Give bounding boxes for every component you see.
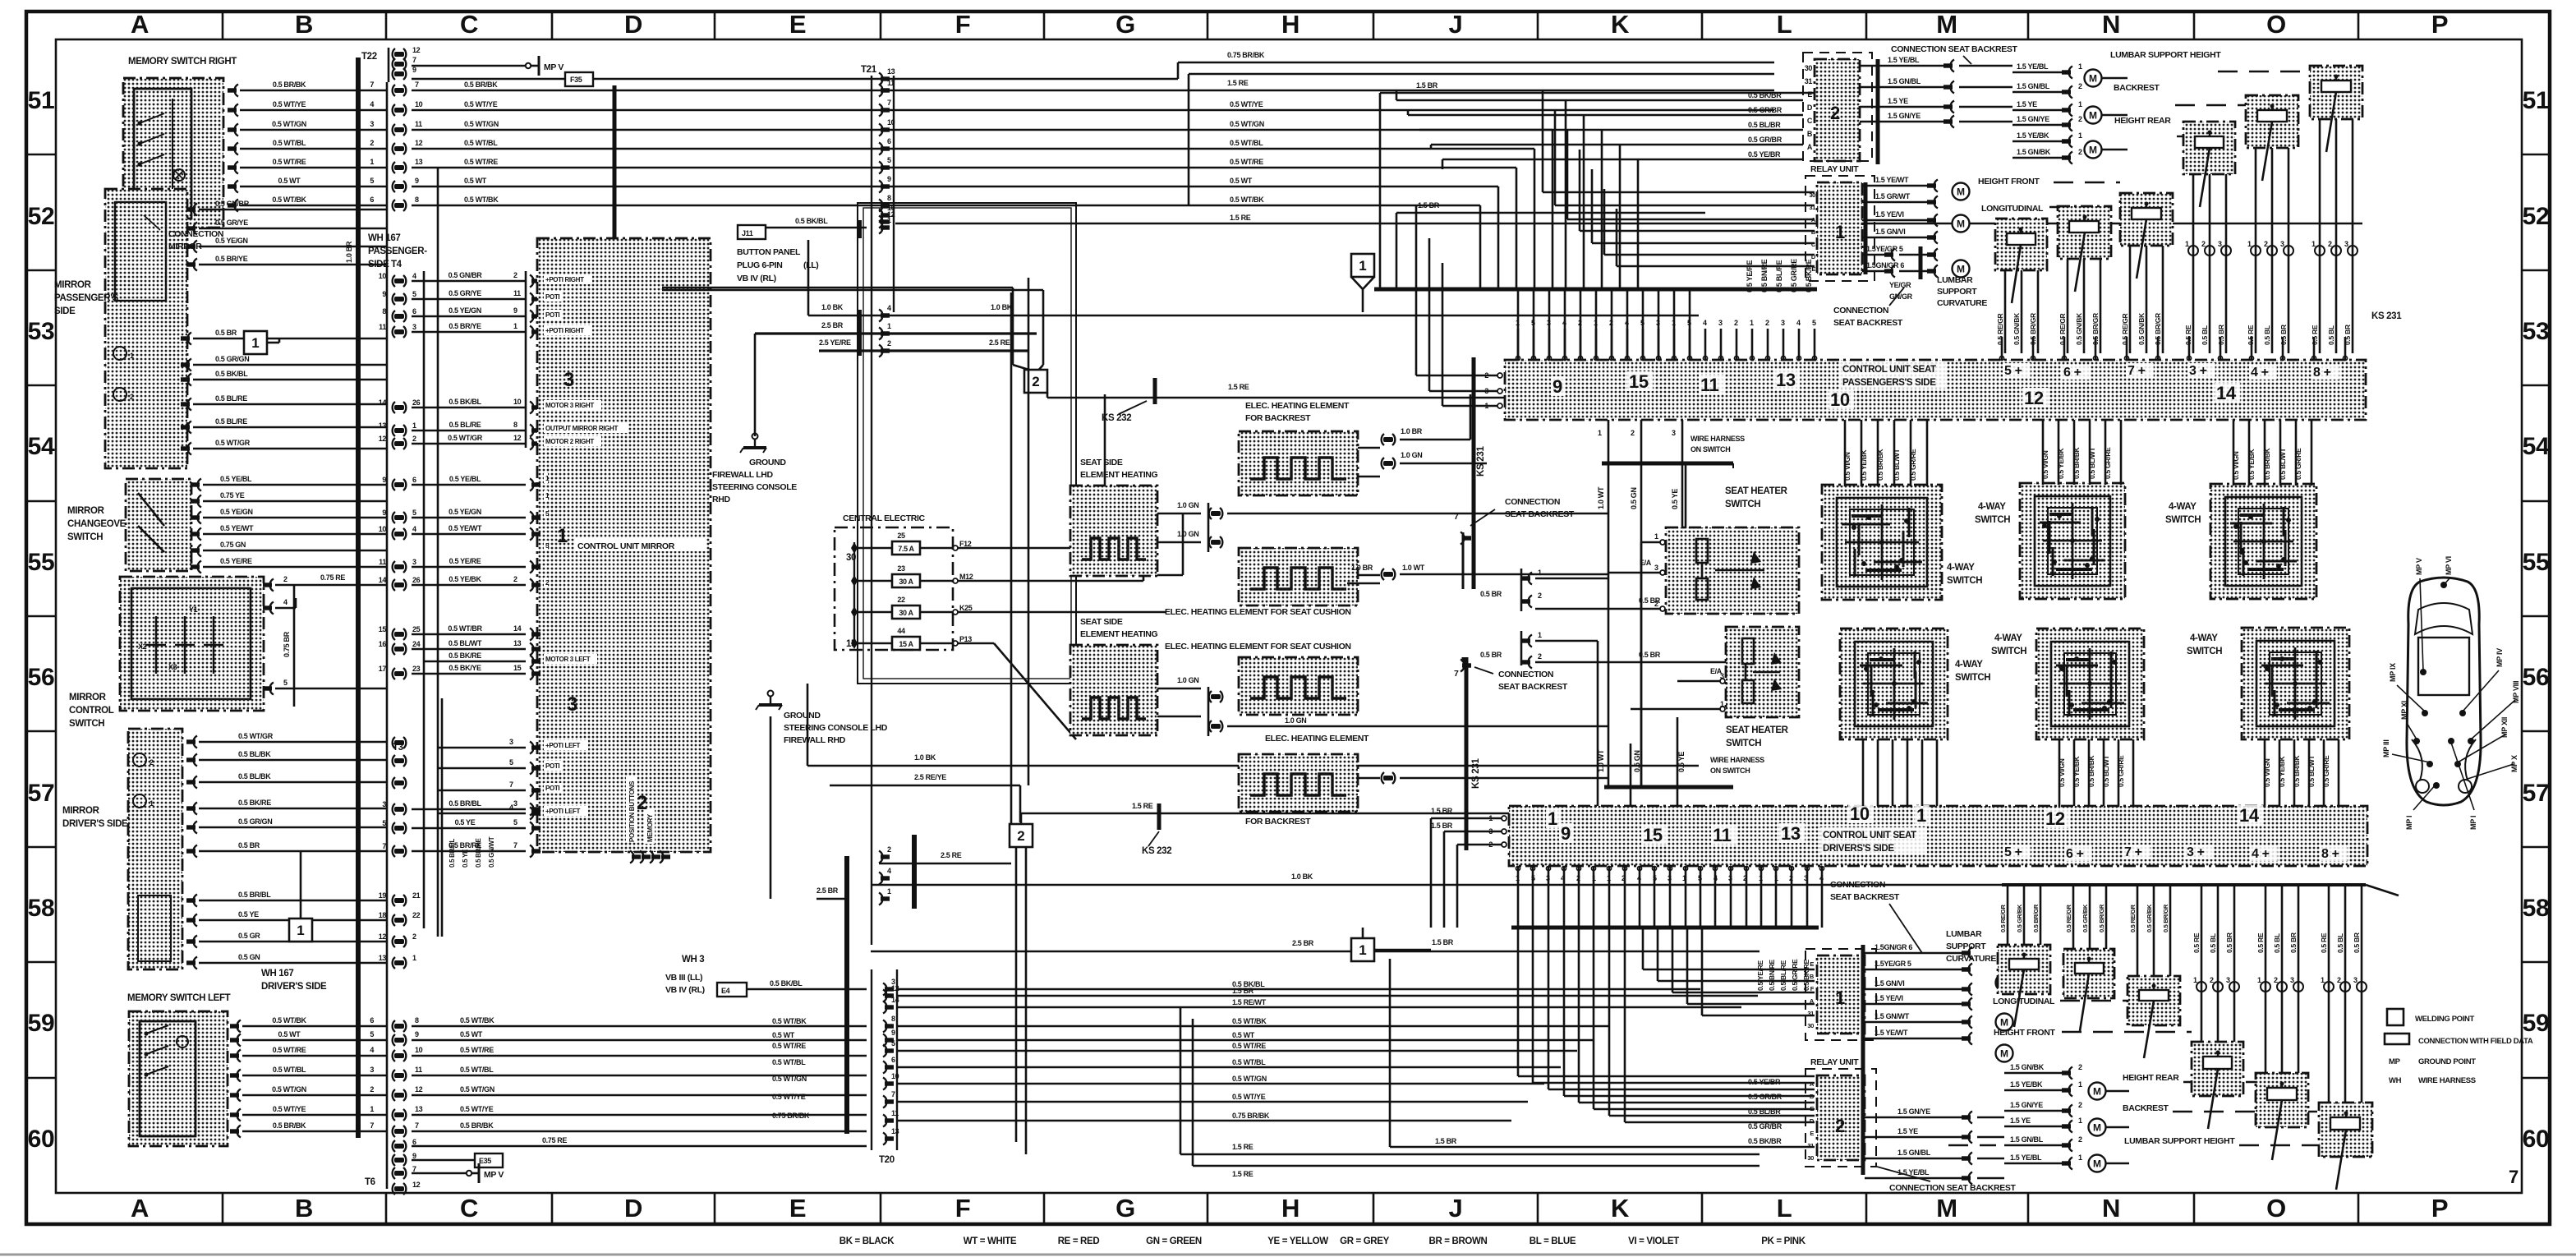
svg-text:2: 2 — [2078, 82, 2082, 90]
svg-text:SEAT BACKREST: SEAT BACKREST — [1833, 318, 1903, 328]
svg-text:VB IV (RL): VB IV (RL) — [737, 274, 776, 283]
car MP labels — [2382, 556, 2520, 830]
svg-text:J11: J11 — [742, 229, 753, 237]
svg-text:4: 4 — [1625, 319, 1629, 327]
svg-text:2.5 BR: 2.5 BR — [821, 321, 844, 329]
svg-text:0.5 BL: 0.5 BL — [2263, 325, 2271, 345]
svg-text:3: 3 — [370, 120, 374, 128]
svg-text:1: 1 — [1835, 988, 1845, 1008]
svg-text:6: 6 — [412, 476, 416, 484]
svg-text:N: N — [2102, 10, 2120, 39]
svg-text:0.5 GN: 0.5 GN — [1630, 487, 1638, 509]
svg-text:2: 2 — [513, 575, 517, 583]
svg-text:M: M — [2093, 1158, 2101, 1170]
svg-text:0.5 BL/BK: 0.5 BL/BK — [238, 772, 271, 780]
svg-text:55: 55 — [2523, 549, 2550, 576]
svg-text:0.5 YE/RE: 0.5 YE/RE — [1756, 960, 1764, 991]
svg-text:1.5 YE/BL: 1.5 YE/BL — [2017, 62, 2049, 71]
svg-text:53: 53 — [2523, 318, 2550, 345]
svg-text:VB III (LL): VB III (LL) — [665, 973, 702, 983]
svg-text:0.5 BL/BK: 0.5 BL/BK — [238, 750, 271, 758]
svg-text:0.5 BR: 0.5 BR — [1639, 651, 1661, 659]
svg-text:13: 13 — [887, 67, 895, 76]
svg-text:RHD: RHD — [712, 495, 730, 504]
svg-text:CONTROL UNIT MIRROR: CONTROL UNIT MIRROR — [577, 541, 675, 551]
svg-text:1.5 YE/BL: 1.5 YE/BL — [1897, 1168, 1930, 1176]
svg-text:5 +: 5 + — [2004, 364, 2022, 378]
svg-text:0.5 YE/RE: 0.5 YE/RE — [1746, 260, 1754, 292]
svg-text:PLUG 6-PIN: PLUG 6-PIN — [737, 260, 782, 270]
svg-text:0.5 GR/BR: 0.5 GR/BR — [1748, 106, 1782, 114]
svg-text:1.5YE/GR 5: 1.5YE/GR 5 — [1866, 245, 1903, 253]
svg-text:ELEMENT HEATING: ELEMENT HEATING — [1080, 470, 1157, 480]
svg-text:4: 4 — [412, 272, 416, 280]
svg-text:0.5 WT/RE: 0.5 WT/RE — [464, 158, 498, 166]
svg-text:RELAY UNIT: RELAY UNIT — [1810, 164, 1859, 174]
svg-text:1.5 BR: 1.5 BR — [1416, 81, 1438, 90]
svg-text:LUMBAR: LUMBAR — [1946, 929, 1982, 939]
svg-text:M12: M12 — [959, 573, 973, 581]
svg-text:0.5 YE/RE: 0.5 YE/RE — [220, 557, 252, 565]
svg-text:0.5 WT/GN: 0.5 WT/GN — [772, 1075, 807, 1083]
svg-text:4-WAY: 4-WAY — [1994, 633, 2022, 643]
svg-text:0.5 YE/BK: 0.5 YE/BK — [1860, 449, 1868, 481]
svg-text:3: 3 — [1781, 319, 1785, 327]
svg-text:WH: WH — [2389, 1076, 2402, 1085]
svg-text:0.5 BK/BL: 0.5 BK/BL — [770, 979, 803, 988]
wire trunk thick D top — [613, 85, 617, 238]
svg-text:1: 1 — [2321, 976, 2325, 984]
svg-text:FOR BACKREST: FOR BACKREST — [1245, 413, 1311, 423]
svg-text:7: 7 — [891, 1090, 895, 1098]
svg-text:7 +: 7 + — [2124, 845, 2142, 859]
svg-text:30 A: 30 A — [899, 578, 913, 586]
svg-text:0.5 WT/GN: 0.5 WT/GN — [272, 1085, 306, 1094]
svg-text:1.5 GN/BK: 1.5 GN/BK — [2017, 148, 2051, 156]
splice KS 231 top — [1474, 357, 1486, 589]
svg-text:7: 7 — [1454, 512, 1459, 522]
wires relay 1 lower outputs right — [1865, 943, 1972, 1045]
svg-text:0.5 BL/WT: 0.5 BL/WT — [2307, 755, 2316, 787]
svg-text:5: 5 — [370, 1030, 374, 1038]
svg-text:0.5 GR: 0.5 GR — [238, 932, 260, 940]
svg-text:0.5 WT/BL: 0.5 WT/BL — [460, 1066, 494, 1074]
svg-text:2: 2 — [887, 339, 891, 348]
svg-text:4: 4 — [1561, 874, 1565, 882]
wires seat heater column driver — [1597, 717, 1686, 806]
block position sensor N52 right — [2120, 193, 2173, 279]
svg-text:0.5 WT/RE: 0.5 WT/RE — [1230, 158, 1263, 166]
svg-text:1: 1 — [513, 322, 517, 330]
svg-text:1: 1 — [1592, 874, 1596, 882]
svg-text:1.0 BK: 1.0 BK — [991, 303, 1013, 311]
svg-text:SWITCH: SWITCH — [1975, 515, 2010, 525]
block control unit mirror — [537, 238, 711, 852]
svg-text:54: 54 — [2523, 433, 2550, 460]
svg-text:2.5 RE: 2.5 RE — [989, 338, 1010, 347]
svg-text:22: 22 — [412, 911, 421, 919]
svg-text:2: 2 — [1830, 103, 1840, 123]
svg-text:8: 8 — [891, 1015, 895, 1023]
svg-text:0.5 BK/YE: 0.5 BK/YE — [448, 664, 481, 672]
svg-text:0.5 BR/YE: 0.5 BR/YE — [448, 322, 481, 330]
svg-text:P: P — [2431, 1194, 2448, 1222]
svg-text:D: D — [624, 10, 642, 39]
svg-text:MP V: MP V — [544, 62, 563, 72]
wires 4-way N56 to control unit driver — [2058, 739, 2133, 806]
svg-text:0.5 WT/YE: 0.5 WT/YE — [1232, 1093, 1266, 1101]
heating element seat side 1 — [1070, 486, 1157, 576]
svg-text:0.5 BR/BK: 0.5 BR/BK — [1876, 448, 1884, 481]
svg-text:+POTI RIGHT: +POTI RIGHT — [545, 276, 584, 283]
wires position sensors bottom to control unit — [1999, 885, 2367, 1103]
svg-text:M: M — [1957, 186, 1965, 198]
svg-text:0.5 WT/BL: 0.5 WT/BL — [464, 139, 498, 147]
svg-text:0.5 YE/BK: 0.5 YE/BK — [2278, 756, 2286, 787]
svg-text:L: L — [1777, 1194, 1792, 1222]
svg-text:4: 4 — [1819, 874, 1824, 882]
svg-text:+POTI RIGHT: +POTI RIGHT — [545, 327, 584, 334]
svg-text:F12: F12 — [959, 540, 972, 548]
svg-text:X3: X3 — [168, 663, 177, 671]
svg-text:SEAT SIDE: SEAT SIDE — [1080, 617, 1123, 627]
svg-text:23: 23 — [412, 665, 421, 673]
svg-text:T21: T21 — [861, 65, 877, 75]
svg-text:1: 1 — [1916, 805, 1926, 826]
connector T21 lower pins — [879, 845, 891, 905]
svg-text:0.5 BR/GR: 0.5 BR/GR — [2162, 904, 2169, 932]
svg-text:MP V: MP V — [484, 1170, 504, 1180]
wires memory switch left — [230, 1016, 867, 1138]
block 4-way switch N54 — [2020, 483, 2125, 599]
svg-text:E: E — [1810, 1130, 1814, 1137]
block mirror changeover switch — [126, 479, 191, 571]
svg-text:1: 1 — [412, 954, 416, 962]
svg-text:8 +: 8 + — [2313, 366, 2331, 380]
block 4-way switch O56 — [2242, 628, 2349, 739]
svg-text:30: 30 — [1805, 64, 1813, 72]
svg-text:10: 10 — [887, 118, 895, 127]
svg-text:8: 8 — [415, 1016, 419, 1024]
svg-text:10: 10 — [415, 100, 423, 108]
connector pair K56 — [1480, 631, 1726, 787]
svg-text:3 +: 3 + — [2189, 364, 2207, 378]
wire 1.5 RE bottom pair — [1180, 1007, 1759, 1178]
wires position sensors top to control unit — [1996, 119, 2357, 353]
thick wire M51 — [1876, 59, 1880, 164]
connector T20 column — [872, 969, 899, 1165]
svg-text:+POTI LEFT: +POTI LEFT — [545, 808, 581, 815]
node 2 square top — [662, 288, 1047, 393]
svg-text:F: F — [955, 10, 971, 39]
svg-text:0.5 BR/GR: 0.5 BR/GR — [2029, 313, 2037, 345]
svg-text:13: 13 — [1776, 370, 1796, 390]
svg-text:5: 5 — [513, 818, 517, 826]
svg-text:2: 2 — [1538, 592, 1542, 600]
svg-text:0.5 BR/BL: 0.5 BR/BL — [238, 891, 271, 899]
svg-text:0.5 WT/BL: 0.5 WT/BL — [772, 1058, 806, 1066]
svg-text:0.5 RE/GR: 0.5 RE/GR — [2129, 905, 2137, 932]
svg-text:2: 2 — [2078, 1101, 2082, 1109]
svg-text:12: 12 — [513, 434, 522, 442]
svg-text:0.5 BR: 0.5 BR — [215, 329, 237, 337]
svg-text:HEIGHT FRONT: HEIGHT FRONT — [1978, 177, 2040, 186]
svg-text:+POTI LEFT: +POTI LEFT — [545, 742, 581, 749]
svg-text:MIRROR: MIRROR — [62, 806, 100, 816]
svg-text:0.5 GR/BR: 0.5 GR/BR — [1748, 1122, 1782, 1130]
svg-text:SWITCH: SWITCH — [1725, 500, 1760, 509]
svg-text:11: 11 — [1700, 375, 1719, 395]
svg-text:STEERING CONSOLE: STEERING CONSOLE — [712, 482, 797, 492]
svg-text:2.5 RE/YE: 2.5 RE/YE — [914, 773, 946, 781]
svg-text:0.5 WT/GN: 0.5 WT/GN — [460, 1085, 494, 1094]
svg-text:WELDING POINT: WELDING POINT — [2415, 1015, 2475, 1024]
svg-text:0.5 RE/GR: 0.5 RE/GR — [1999, 905, 2007, 932]
wire color legend — [839, 1236, 1806, 1246]
svg-text:0.5 WT/YE: 0.5 WT/YE — [460, 1105, 494, 1113]
svg-text:VI = VIOLET: VI = VIOLET — [1628, 1236, 1679, 1246]
svg-text:0.5 BL: 0.5 BL — [2273, 933, 2281, 953]
block position sensor O51 left — [2246, 95, 2298, 181]
svg-text:BK = BLACK: BK = BLACK — [839, 1236, 895, 1246]
svg-text:GROUND: GROUND — [749, 458, 786, 467]
node 1 square mirror passenger — [244, 331, 267, 354]
block position sensor N59 — [2127, 976, 2180, 1058]
svg-text:0.5 BL/RE: 0.5 BL/RE — [1779, 960, 1787, 991]
svg-text:KS 232: KS 232 — [1142, 846, 1171, 856]
svg-text:0.5 BL/RE: 0.5 BL/RE — [215, 417, 247, 426]
svg-text:MP VI: MP VI — [2445, 556, 2453, 575]
label connection seat backrest J56 — [1454, 657, 1568, 692]
block memory switch right — [123, 78, 223, 228]
svg-text:1.5 GN/BL: 1.5 GN/BL — [2010, 1135, 2044, 1144]
svg-text:FOR BACKREST: FOR BACKREST — [1245, 817, 1311, 826]
car outline — [2407, 578, 2481, 805]
svg-text:SWITCH: SWITCH — [1991, 647, 2026, 656]
wires relay unit 2 top inputs — [1396, 90, 1803, 289]
svg-text:0.5 YE/GN: 0.5 YE/GN — [448, 508, 481, 516]
svg-text:PASSENGER-: PASSENGER- — [368, 246, 427, 256]
svg-text:12: 12 — [415, 1085, 423, 1094]
wires bus K53 down to control unit — [1518, 289, 1690, 360]
svg-text:0.5 WT/BK: 0.5 WT/BK — [460, 1016, 494, 1024]
svg-text:M: M — [1957, 264, 1965, 275]
wires T4 to control unit mirror — [412, 271, 540, 450]
svg-text:MIRROR: MIRROR — [67, 506, 105, 516]
node 1 square bottom J57 — [1351, 928, 1454, 961]
svg-text:SWITCH: SWITCH — [2165, 515, 2201, 525]
svg-text:2: 2 — [2337, 976, 2341, 984]
svg-text:POSITION BUTTONS: POSITION BUTTONS — [628, 780, 636, 842]
svg-text:0.5 BR: 0.5 BR — [238, 841, 260, 850]
label connection seat backrest M51 — [1891, 44, 2018, 64]
wire 1.5 RE from node 2 — [1046, 393, 1049, 398]
svg-text:2: 2 — [370, 1085, 374, 1094]
wires mirror passenger side upper — [186, 200, 387, 271]
svg-text:58: 58 — [28, 895, 55, 922]
vertical labels 0.5 RE wires J-K 53 — [1746, 259, 1813, 292]
svg-text:1: 1 — [1598, 429, 1602, 437]
svg-text:7: 7 — [415, 1121, 419, 1130]
svg-text:0.5 BL: 0.5 BL — [2327, 325, 2335, 345]
svg-text:1: 1 — [2247, 240, 2252, 248]
svg-text:1.5 BR: 1.5 BR — [1431, 807, 1453, 815]
svg-text:SUPPORT: SUPPORT — [1946, 942, 1986, 951]
svg-text:0.5 YE/BL: 0.5 YE/BL — [220, 475, 252, 483]
svg-text:1: 1 — [1516, 319, 1520, 327]
wires relay 2 lower outputs right — [1865, 1107, 2004, 1185]
wire fan to relay units — [895, 51, 2362, 289]
svg-text:WIRE HARNESS: WIRE HARNESS — [2418, 1076, 2476, 1085]
svg-text:3 +: 3 + — [2187, 845, 2205, 859]
svg-text:0.5 WT/BR: 0.5 WT/BR — [448, 624, 482, 633]
svg-text:4 +: 4 + — [2252, 847, 2270, 861]
svg-text:0.5 BK/BL: 0.5 BK/BL — [215, 370, 248, 378]
svg-text:GROUND: GROUND — [784, 711, 821, 721]
svg-text:3: 3 — [1728, 874, 1732, 882]
svg-text:7.5 A: 7.5 A — [898, 545, 914, 553]
svg-text:1: 1 — [370, 1105, 374, 1113]
svg-text:SWITCH: SWITCH — [69, 719, 104, 729]
svg-text:2.5 RE: 2.5 RE — [941, 851, 962, 859]
svg-text:3: 3 — [1654, 564, 1658, 572]
wire branch 2.5 BR down G — [1010, 292, 1013, 824]
svg-text:4: 4 — [370, 1046, 374, 1054]
svg-text:2: 2 — [1789, 874, 1793, 882]
svg-text:2: 2 — [412, 932, 416, 941]
label connection seat backrest L60 — [1877, 1167, 2017, 1193]
svg-text:51: 51 — [28, 87, 55, 114]
svg-text:Y1: Y1 — [189, 605, 198, 614]
relay unit 1 upper — [1805, 176, 1874, 281]
svg-text:4-WAY: 4-WAY — [1947, 563, 1975, 573]
svg-text:0.5 YE/BR: 0.5 YE/BR — [1748, 150, 1781, 159]
svg-text:FIREWALL LHD: FIREWALL LHD — [712, 470, 774, 480]
svg-text:6: 6 — [887, 137, 891, 145]
svg-text:T20: T20 — [879, 1155, 895, 1165]
wires control unit to 4-way M54 — [1843, 420, 1927, 486]
svg-text:14: 14 — [2216, 383, 2237, 403]
svg-text:1.5 BR: 1.5 BR — [1418, 201, 1440, 209]
svg-text:3: 3 — [1547, 319, 1551, 327]
svg-text:KS 231: KS 231 — [2371, 311, 2402, 321]
seat heater driver pins — [1631, 667, 1725, 711]
svg-text:1: 1 — [1538, 569, 1542, 577]
svg-text:1.0 GN: 1.0 GN — [1177, 501, 1198, 509]
svg-text:6 +: 6 + — [2063, 366, 2081, 380]
svg-text:E: E — [789, 10, 806, 39]
svg-text:14: 14 — [379, 398, 387, 407]
svg-text:0.5 BL/BR: 0.5 BL/BR — [1748, 1107, 1781, 1116]
svg-text:WH 3: WH 3 — [682, 955, 704, 965]
wire 1.5 BR J52 — [1396, 212, 1705, 214]
svg-text:31: 31 — [1807, 1142, 1814, 1149]
svg-text:1: 1 — [2078, 100, 2082, 108]
svg-text:RELAY UNIT: RELAY UNIT — [1810, 1057, 1859, 1067]
svg-text:0.5 WT/GN: 0.5 WT/GN — [1232, 1075, 1267, 1083]
svg-text:0.5 GR/BR: 0.5 GR/BR — [1748, 1093, 1782, 1101]
svg-text:0.5 WT: 0.5 WT — [464, 177, 487, 185]
svg-text:7: 7 — [513, 841, 517, 850]
svg-text:13: 13 — [1781, 823, 1801, 844]
svg-text:1.5 YE/BK: 1.5 YE/BK — [2017, 131, 2049, 140]
svg-text:5: 5 — [1812, 319, 1816, 327]
svg-text:1: 1 — [251, 335, 259, 351]
block position sensor O58 — [2192, 1042, 2243, 1129]
svg-text:0.5 WT/RE: 0.5 WT/RE — [273, 158, 306, 166]
svg-text:0.75 YE: 0.75 YE — [220, 491, 245, 500]
svg-text:LUMBAR SUPPORT HEIGHT: LUMBAR SUPPORT HEIGHT — [2124, 1136, 2235, 1146]
svg-text:0.5 VI/GN: 0.5 VI/GN — [1843, 452, 1851, 481]
svg-text:9: 9 — [412, 66, 416, 74]
svg-text:B: B — [295, 10, 313, 39]
svg-text:4: 4 — [1562, 319, 1566, 327]
svg-text:MEMORY: MEMORY — [646, 813, 654, 842]
svg-text:30: 30 — [1807, 1022, 1814, 1029]
svg-text:2: 2 — [1578, 319, 1582, 327]
wires 4-way O56 to control unit driver — [2263, 739, 2339, 806]
svg-text:1: 1 — [370, 158, 374, 166]
label connection seat backrest J54 — [1454, 497, 1575, 589]
svg-text:0.5 GN/BK: 0.5 GN/BK — [2137, 312, 2146, 345]
svg-text:0.5 WT/BK: 0.5 WT/BK — [464, 196, 499, 204]
svg-text:0.75 BR: 0.75 BR — [283, 631, 291, 657]
svg-text:0.5 WT/BK: 0.5 WT/BK — [272, 1016, 306, 1024]
svg-text:1.0 BK: 1.0 BK — [821, 303, 844, 311]
box E4 — [717, 983, 747, 997]
svg-text:0.5 YE/GN: 0.5 YE/GN — [448, 306, 481, 315]
svg-text:7: 7 — [370, 1121, 374, 1130]
svg-text:E: E — [789, 1194, 806, 1222]
svg-text:3: 3 — [382, 800, 386, 808]
svg-text:BACKREST: BACKREST — [2114, 83, 2160, 93]
svg-text:WIRE HARNESS: WIRE HARNESS — [1710, 756, 1764, 764]
svg-text:12: 12 — [412, 46, 421, 54]
svg-text:CONNECTION SEAT BACKREST: CONNECTION SEAT BACKREST — [1889, 1183, 2017, 1193]
svg-text:C: C — [460, 10, 478, 39]
svg-text:MOTOR 3 RIGHT: MOTOR 3 RIGHT — [545, 402, 594, 409]
svg-text:15: 15 — [513, 664, 522, 672]
svg-text:MIRROR: MIRROR — [69, 693, 107, 702]
ground firewall LHD — [740, 434, 766, 454]
svg-text:19: 19 — [379, 891, 387, 900]
svg-text:0.5 RE/GR: 0.5 RE/GR — [1996, 313, 2004, 345]
ground point MP V top — [526, 63, 531, 68]
svg-text:0.5 BR: 0.5 BR — [1639, 596, 1661, 605]
svg-text:13: 13 — [891, 1127, 899, 1135]
svg-text:7: 7 — [412, 56, 416, 64]
svg-text:H: H — [1281, 1194, 1299, 1222]
svg-text:1: 1 — [2311, 240, 2316, 248]
svg-text:CONNECTION WITH FIELD DATA: CONNECTION WITH FIELD DATA — [2418, 1037, 2533, 1046]
svg-text:1: 1 — [412, 421, 416, 430]
svg-text:4: 4 — [887, 867, 891, 875]
svg-text:6: 6 — [412, 1138, 416, 1146]
svg-text:E4: E4 — [721, 987, 730, 995]
svg-text:0.5 GR/BK: 0.5 GR/BK — [2146, 904, 2153, 932]
svg-text:3: 3 — [1667, 874, 1672, 882]
wires control unit to 4-way O54 — [2232, 420, 2311, 486]
svg-text:11: 11 — [1713, 825, 1732, 845]
svg-text:2: 2 — [370, 139, 374, 147]
svg-text:CONNECTION: CONNECTION — [1498, 670, 1553, 679]
svg-text:0.5 WT/GR: 0.5 WT/GR — [448, 434, 483, 442]
box J11 — [738, 225, 766, 239]
control unit passenger left pins — [1416, 205, 1502, 410]
svg-text:PASSENGERS'S SIDE: PASSENGERS'S SIDE — [1842, 378, 1936, 388]
wire 0.5 BK/BL J11 — [766, 227, 867, 229]
svg-text:C: C — [460, 1194, 478, 1222]
